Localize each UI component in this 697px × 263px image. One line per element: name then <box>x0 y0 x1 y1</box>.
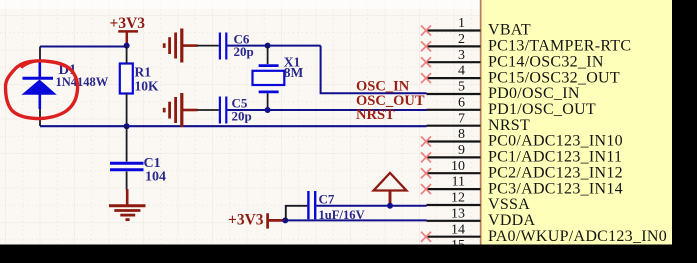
capacitor C6 <box>220 32 254 60</box>
pin 5 <box>427 80 580 103</box>
wire VDDA <box>285 219 426 221</box>
svg-text:C7: C7 <box>319 191 335 206</box>
svg-text:R1: R1 <box>135 64 152 79</box>
capacitor C5 <box>220 96 252 124</box>
pin 10 <box>427 159 623 182</box>
svg-text:PC3/ADC123_IN14: PC3/ADC123_IN14 <box>488 180 623 197</box>
power port VSSA triangle <box>374 173 407 204</box>
svg-text:PC0/ADC123_IN10: PC0/ADC123_IN10 <box>488 133 623 150</box>
capacitor C7 <box>308 191 364 222</box>
wire NRST rail <box>40 125 427 127</box>
capacitor C1 <box>110 126 166 189</box>
wire OSC_OUT <box>227 109 426 111</box>
svg-text:+3V3: +3V3 <box>110 15 146 32</box>
wire C6 to OSC_IN corner <box>227 45 320 47</box>
svg-text:12: 12 <box>451 191 465 206</box>
ground (earth, rotated) at C6 <box>164 29 197 63</box>
svg-text:11: 11 <box>452 175 465 190</box>
svg-text:PC14/OSC32_IN: PC14/OSC32_IN <box>488 53 604 70</box>
pin 13 <box>427 206 536 229</box>
resistor R1 <box>120 47 159 127</box>
pin 15 (mostly hidden) <box>451 238 465 253</box>
svg-text:1: 1 <box>458 16 465 31</box>
no-ERC mark pin 1 <box>421 26 431 36</box>
node junction at +3V3/R1 <box>124 43 130 49</box>
pin 9 <box>427 143 623 166</box>
power +3V3 (bottom) <box>228 211 285 228</box>
svg-text:6: 6 <box>458 95 465 110</box>
wire VSSA <box>317 205 427 207</box>
svg-text:1uF/16V: 1uF/16V <box>319 208 365 222</box>
wire D1 to rail <box>39 109 41 127</box>
svg-text:2: 2 <box>458 32 465 47</box>
svg-text:VDDA: VDDA <box>488 212 536 229</box>
black crop bar bottom <box>0 245 697 263</box>
svg-text:PC15/OSC32_OUT: PC15/OSC32_OUT <box>488 69 620 86</box>
svg-text:VBAT: VBAT <box>488 22 531 39</box>
pin 2 <box>427 32 632 55</box>
svg-text:10: 10 <box>451 159 465 174</box>
svg-text:10K: 10K <box>135 79 160 94</box>
ground (earth, rotated) at C5 <box>164 93 197 127</box>
no-ERC mark pin 8 <box>421 137 431 147</box>
annotation: red freehand circle around D1 <box>6 61 78 119</box>
pin 3 <box>427 48 604 71</box>
diode D1 <box>22 62 109 109</box>
no-ERC mark pin 3 <box>421 57 431 67</box>
pin 11 <box>427 175 623 198</box>
node junction X1 bottom <box>265 107 271 113</box>
no-ERC mark pin 4 <box>421 73 431 83</box>
svg-text:PC1/ADC123_IN11: PC1/ADC123_IN11 <box>488 149 622 166</box>
pin 12 <box>427 191 531 214</box>
svg-text:5: 5 <box>458 80 465 95</box>
svg-text:7: 7 <box>458 111 465 126</box>
svg-text:1N4148W: 1N4148W <box>56 75 109 89</box>
crystal X1 <box>253 46 304 110</box>
wire OSC_IN elbow <box>321 46 427 94</box>
pin 14 <box>427 222 667 245</box>
svg-text:NRST: NRST <box>356 107 395 123</box>
node junction VSSA <box>387 203 393 209</box>
svg-text:14: 14 <box>451 222 465 237</box>
black crop bar right <box>672 0 697 263</box>
svg-text:8: 8 <box>458 127 465 142</box>
svg-text:3: 3 <box>458 48 465 63</box>
node junction rail/R1/C1 <box>124 123 130 129</box>
no-ERC mark pin 2 <box>421 41 431 51</box>
svg-text:VSSA: VSSA <box>488 196 530 213</box>
svg-text:+3V3: +3V3 <box>228 211 264 228</box>
wire D1 anode vertical <box>39 47 41 63</box>
svg-text:8M: 8M <box>284 65 304 80</box>
svg-text:4: 4 <box>458 64 465 79</box>
pin 6 <box>427 95 597 118</box>
svg-text:104: 104 <box>145 169 166 184</box>
pin 7 <box>427 111 531 134</box>
no-ERC mark pin 11 <box>421 184 431 194</box>
node junction VDDA/+3V3 <box>282 217 288 223</box>
pin 1 <box>427 16 531 38</box>
svg-text:PD0/OSC_IN: PD0/OSC_IN <box>488 85 580 102</box>
no-ERC mark pin 14 <box>421 232 431 242</box>
svg-text:PD1/OSC_OUT: PD1/OSC_OUT <box>488 101 596 118</box>
svg-text:9: 9 <box>458 143 465 158</box>
no-ERC mark pin 10 <box>421 168 431 178</box>
wire gnd to C6 <box>197 45 219 47</box>
ground (earth) below C1 <box>109 189 146 220</box>
node junction X1 top <box>265 43 271 49</box>
pin 4 <box>427 64 620 87</box>
svg-text:13: 13 <box>451 206 465 221</box>
svg-text:NRST: NRST <box>488 117 530 134</box>
power +3V3 (top) <box>110 15 146 44</box>
svg-text:PA0/WKUP/ADC123_IN0: PA0/WKUP/ADC123_IN0 <box>488 228 667 245</box>
wire C7 elbow <box>286 206 308 221</box>
svg-text:PC2/ADC123_IN12: PC2/ADC123_IN12 <box>488 164 623 181</box>
no-ERC mark pin 9 <box>421 152 431 162</box>
wire top net <box>40 46 127 48</box>
wire gnd to C5 <box>197 109 219 111</box>
pin 8 <box>427 127 623 150</box>
IC body U1 (yellow block) <box>481 0 672 245</box>
svg-text:PC13/TAMPER-RTC: PC13/TAMPER-RTC <box>488 38 631 55</box>
